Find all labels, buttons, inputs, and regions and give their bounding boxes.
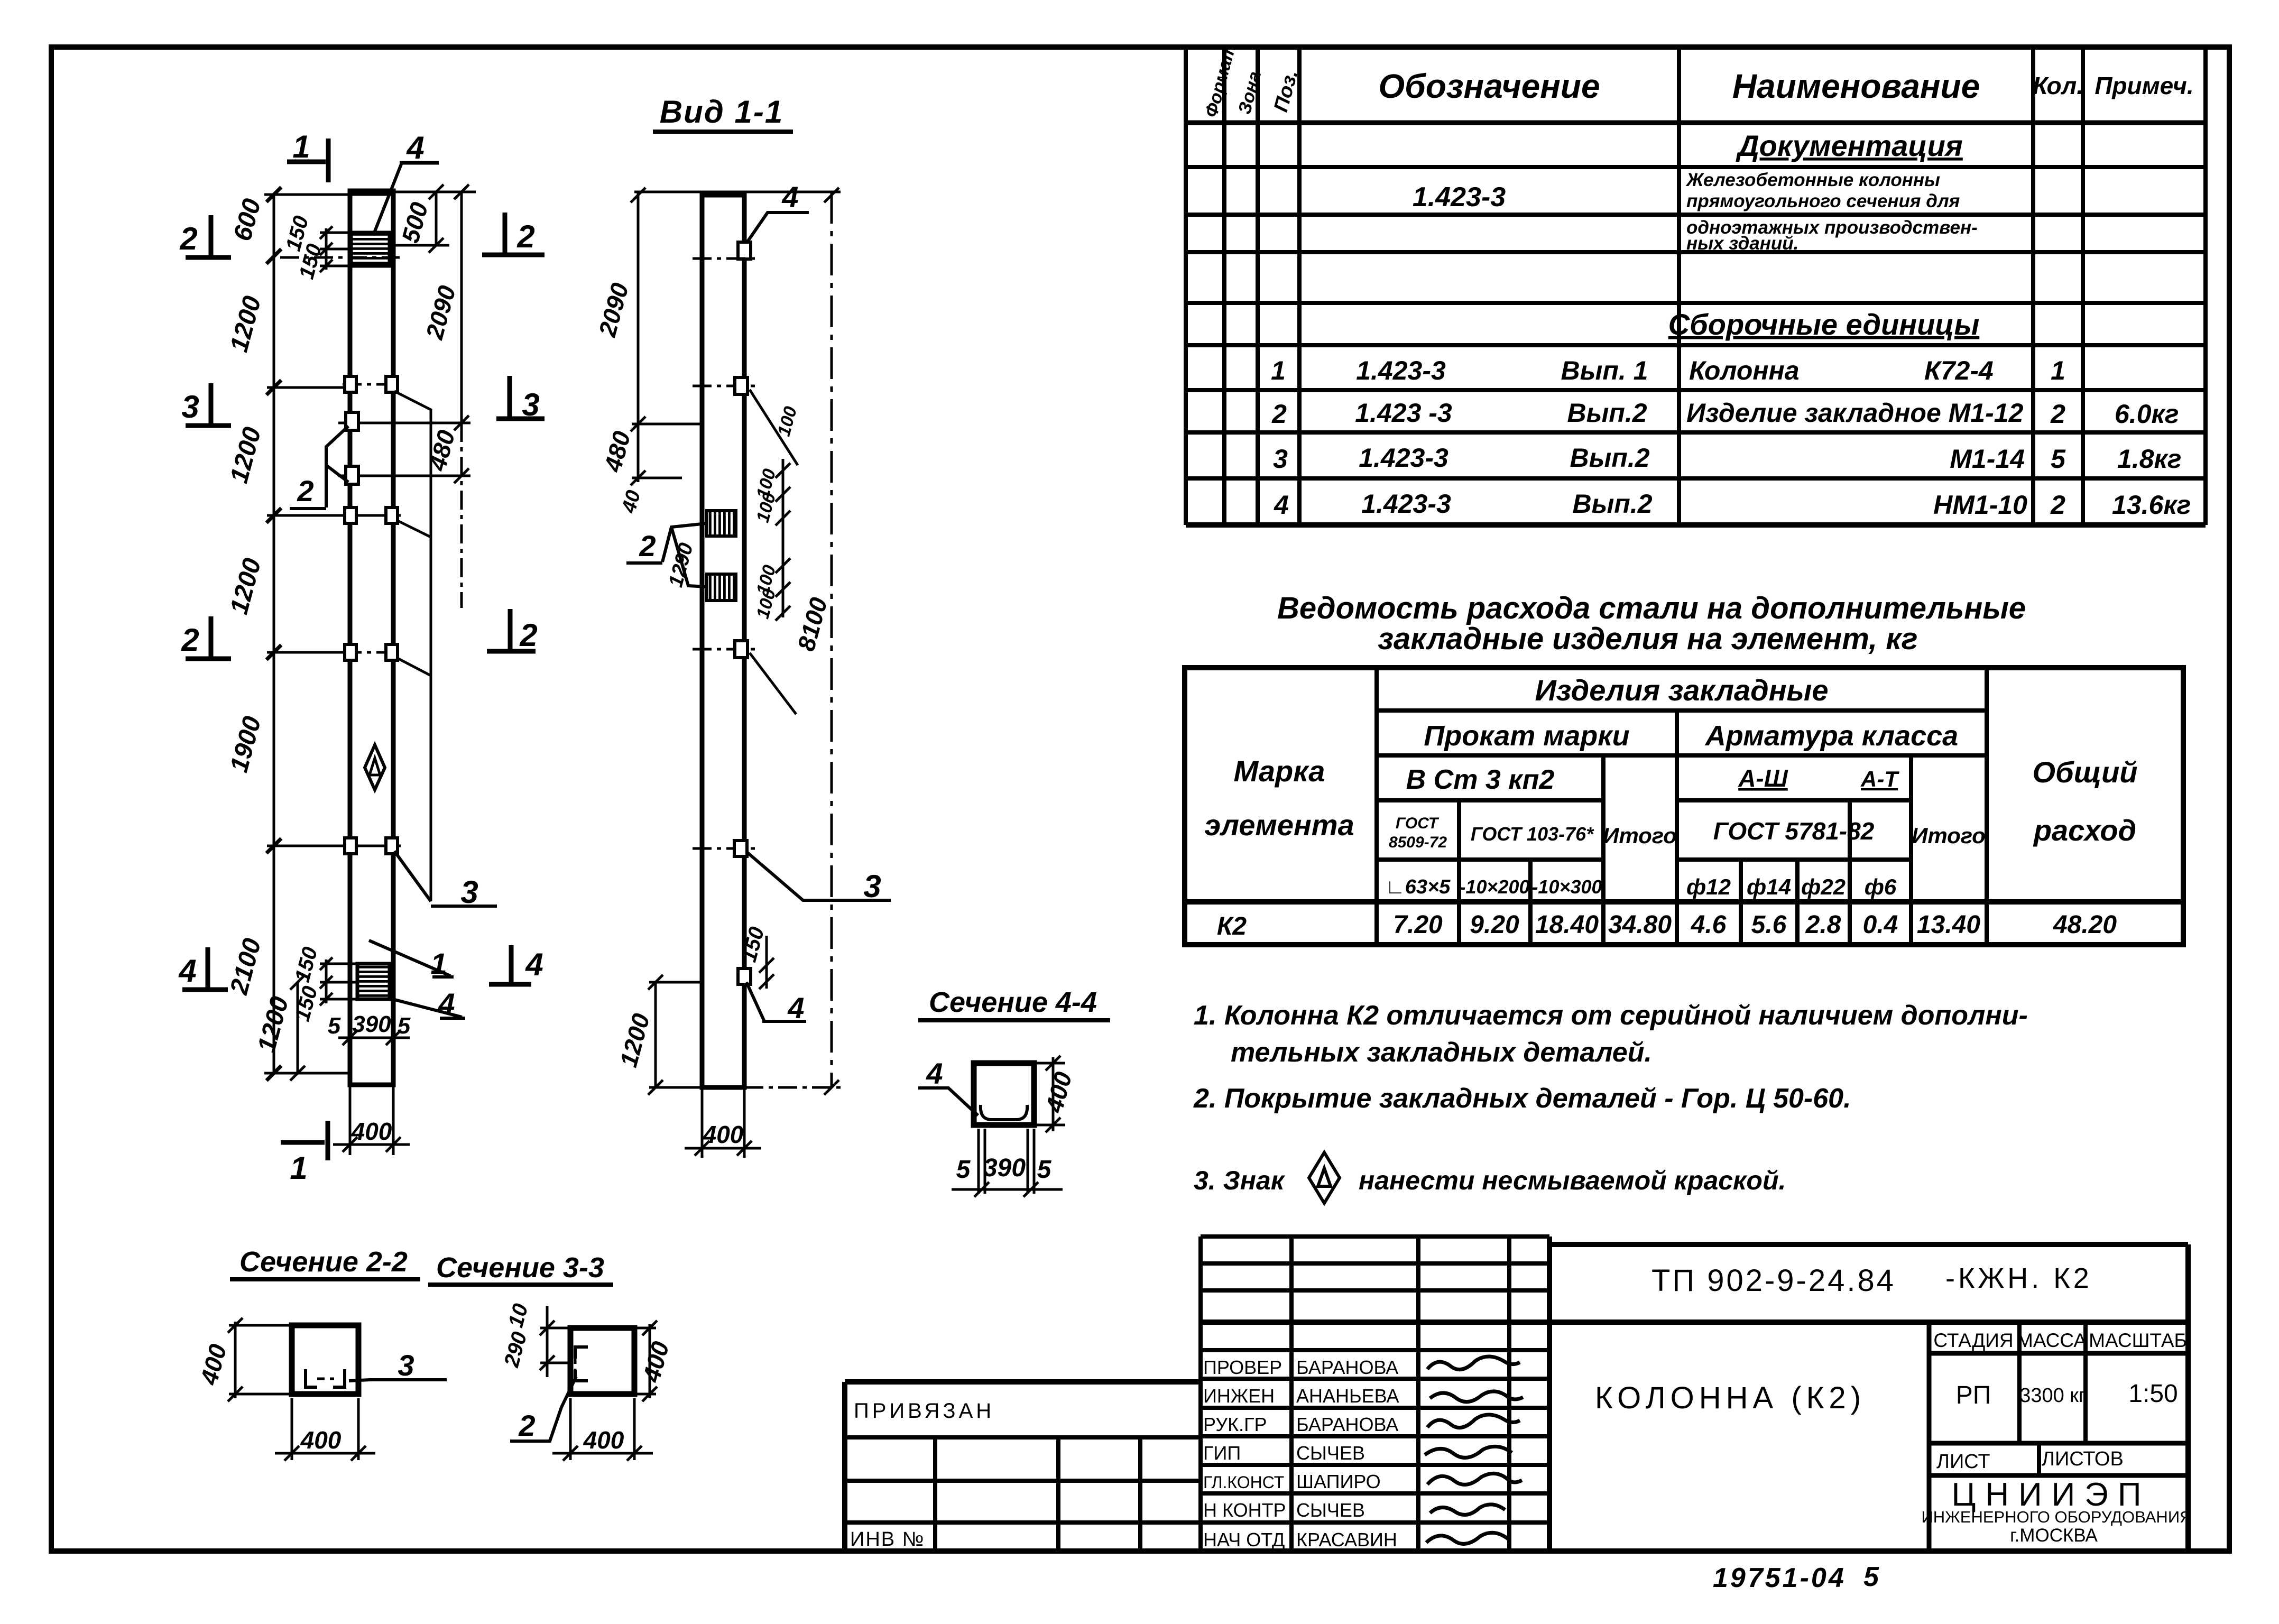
svg-text:Сборочные единицы: Сборочные единицы: [1668, 308, 1980, 341]
left dimension chain line: [264, 193, 395, 1074]
svg-text:1200: 1200: [253, 993, 294, 1055]
bottom embedded plate: [357, 964, 390, 999]
long leader from joint 727: [394, 391, 431, 901]
signature rows labels: [1203, 1357, 1399, 1551]
svg-text:1: 1: [2051, 356, 2065, 385]
title block grid: [845, 1237, 2188, 1551]
chain dimension labels: [225, 196, 294, 1055]
section mark 2 left: [186, 215, 231, 259]
svg-text:нанести несмываемой краской.: нанести несмываемой краской.: [1359, 1166, 1786, 1195]
svg-text:∟63×5: ∟63×5: [1386, 876, 1451, 898]
joint at 730: [693, 385, 756, 387]
svg-text:9.20: 9.20: [1470, 911, 1519, 939]
svg-text:150: 150: [291, 945, 322, 985]
svg-text:5: 5: [1037, 1156, 1052, 1184]
8100 dim right: [824, 188, 839, 1095]
svg-text:М1-14: М1-14: [1950, 444, 2025, 474]
svg-text:1200: 1200: [225, 293, 267, 355]
svg-text:ТП 902-9-24.84: ТП 902-9-24.84: [1651, 1263, 1896, 1298]
top extension line: [634, 191, 841, 193]
svg-text:А-Ш: А-Ш: [1738, 764, 1788, 792]
svg-text:6.0кг: 6.0кг: [2115, 399, 2179, 429]
svg-text:390: 390: [352, 1011, 391, 1037]
svg-text:1: 1: [430, 947, 447, 980]
quality-mark diamond in note 3: [1309, 1152, 1340, 1203]
svg-text:400: 400: [1040, 1069, 1077, 1116]
svg-text:2: 2: [179, 221, 197, 256]
svg-text:Вып. 1: Вып. 1: [1561, 356, 1648, 385]
svg-text:1.8кг: 1.8кг: [2117, 444, 2182, 474]
svg-text:Примеч.: Примеч.: [2095, 72, 2193, 99]
section mark 2 lower left: [186, 616, 231, 660]
leader 2: [626, 523, 707, 587]
embedded plates M1-12 in column: [707, 511, 736, 536]
svg-text:ных зданий.: ных зданий.: [1686, 233, 1798, 254]
right part: [1549, 1242, 2188, 1247]
svg-text:ШАПИРО: ШАПИРО: [1296, 1471, 1381, 1492]
svg-text:Вып.2: Вып.2: [1567, 398, 1647, 428]
svg-text:ПРИВЯЗАН: ПРИВЯЗАН: [854, 1399, 994, 1423]
section 4-4 channel detail: [981, 1105, 1027, 1120]
plate at right edge top: [738, 242, 751, 259]
svg-text:ф22: ф22: [1801, 874, 1846, 899]
svg-text:расход: расход: [2033, 814, 2136, 847]
svg-text:3: 3: [460, 874, 478, 910]
svg-text:А-Т: А-Т: [1860, 767, 1899, 791]
svg-text:100: 100: [774, 404, 801, 439]
svg-text:400: 400: [703, 1121, 744, 1148]
svg-text:400: 400: [195, 1341, 232, 1388]
svg-text:1.423-3: 1.423-3: [1359, 443, 1448, 473]
row: Документация: [1413, 129, 1980, 341]
section cut 2-2 dash line: [280, 256, 400, 259]
svg-text:1.423-3: 1.423-3: [1413, 182, 1506, 213]
svg-text:0.4: 0.4: [1863, 911, 1898, 939]
svg-text:Н КОНТР: Н КОНТР: [1203, 1499, 1286, 1521]
svg-text:НАЧ ОТД: НАЧ ОТД: [1203, 1529, 1285, 1551]
top embedded plate HM1-10: [351, 233, 390, 266]
section 3-3 square: [570, 1328, 634, 1394]
svg-text:3: 3: [398, 1349, 414, 1382]
svg-text:Зона: Зона: [1234, 69, 1265, 116]
svg-text:ЛИСТ: ЛИСТ: [1936, 1451, 1990, 1473]
1200 dim left bottom: [648, 975, 703, 1095]
100 dims right side: [776, 459, 790, 621]
svg-text:2: 2: [516, 219, 534, 254]
svg-text:4: 4: [438, 987, 455, 1020]
svg-text:4: 4: [1274, 490, 1289, 520]
quality diamond mark on column: [365, 745, 385, 790]
svg-text:ф12: ф12: [1686, 874, 1731, 899]
svg-text:2090: 2090: [593, 280, 634, 340]
svg-text:ИНВ №: ИНВ №: [850, 1528, 925, 1551]
svg-text:18.40: 18.40: [1535, 911, 1599, 939]
svg-text:Сечение 2-2: Сечение 2-2: [239, 1246, 408, 1278]
5 390 5 dim below plate: [338, 999, 410, 1045]
section 2-2 400 dim left: [228, 1318, 290, 1401]
svg-text:8509-72: 8509-72: [1389, 834, 1447, 851]
section mark 1 top: [287, 139, 328, 182]
bottom extension dashed right: [744, 1086, 846, 1089]
svg-text:400: 400: [300, 1426, 342, 1454]
section mark 2 right top: [482, 213, 545, 256]
leader 1: [369, 940, 454, 977]
svg-text:ЛИСТОВ: ЛИСТОВ: [2042, 1448, 2124, 1470]
leader 3: [747, 852, 891, 900]
svg-text:290: 290: [500, 1330, 531, 1370]
svg-text:РП: РП: [1956, 1381, 1991, 1409]
svg-text:Вып.2: Вып.2: [1570, 443, 1649, 473]
specification table grid: [1186, 50, 2206, 525]
svg-text:Железобетонные колонны: Железобетонные колонны: [1685, 170, 1940, 190]
svg-text:3: 3: [522, 387, 539, 422]
steel table header texts: [1204, 673, 2137, 899]
plates on left edge M1-14: [346, 412, 358, 430]
svg-text:КОЛОННА (К2): КОЛОННА (К2): [1595, 1381, 1866, 1415]
section 2-2 square: [292, 1325, 358, 1394]
svg-text:1: 1: [290, 1150, 307, 1186]
left attachment block: [845, 1379, 1201, 1385]
svg-text:600: 600: [228, 196, 266, 244]
section 4-4 leader 4: [918, 1088, 978, 1115]
leader 4 top: [373, 163, 402, 235]
svg-text:г.МОСКВА: г.МОСКВА: [2010, 1525, 2098, 1546]
svg-text:ф6: ф6: [1865, 874, 1897, 899]
section 3-3 290 10 dims: [540, 1306, 574, 1377]
svg-text:1: 1: [292, 129, 310, 164]
svg-text:ГОСТ: ГОСТ: [1396, 815, 1440, 832]
joint at 1605: [693, 847, 756, 850]
joint at 1234: [343, 651, 401, 654]
2090 dim right: [454, 184, 469, 608]
svg-text:150: 150: [291, 984, 322, 1024]
svg-text:8100: 8100: [792, 594, 833, 654]
svg-text:4: 4: [525, 947, 543, 982]
svg-text:480: 480: [423, 427, 460, 474]
svg-text:13.6кг: 13.6кг: [2112, 490, 2191, 520]
svg-text:РУК.ГР: РУК.ГР: [1203, 1414, 1267, 1435]
svg-text:3: 3: [1273, 444, 1288, 474]
section mark 3 right: [496, 376, 545, 420]
480 dim right: [338, 423, 470, 483]
svg-text:Обозначение: Обозначение: [1378, 67, 1600, 105]
svg-text:2: 2: [519, 617, 537, 653]
svg-text:Итого: Итого: [1912, 823, 1986, 848]
section 2-2 400 dim bottom: [275, 1398, 375, 1461]
svg-text:19751-04: 19751-04: [1713, 1563, 1846, 1593]
section 3-3 channel detail: [575, 1347, 588, 1381]
svg-text:3300 кг: 3300 кг: [2019, 1385, 2086, 1407]
section 2-2 channel detail: [306, 1369, 345, 1387]
svg-text:Наименование: Наименование: [1732, 67, 1980, 105]
500 dim right: [393, 184, 476, 253]
section mark 4 right: [489, 945, 531, 986]
svg-text:390: 390: [983, 1154, 1026, 1182]
section 3-3 leader 2: [510, 1377, 576, 1441]
svg-text:закладные изделия на элемент,: закладные изделия на элемент, кг: [1378, 622, 1917, 656]
svg-text:7.20: 7.20: [1393, 911, 1443, 939]
section mark 1 bottom: [281, 1121, 328, 1160]
svg-text:ф14: ф14: [1747, 874, 1791, 899]
svg-text:БАРАНОВА: БАРАНОВА: [1296, 1357, 1398, 1378]
svg-text:Сечение 4-4: Сечение 4-4: [929, 986, 1097, 1018]
svg-text:5: 5: [398, 1013, 411, 1039]
section 2-2 leader 3: [349, 1380, 447, 1381]
svg-text:2090: 2090: [420, 282, 461, 343]
svg-text:1200: 1200: [225, 555, 267, 617]
svg-text:2100: 2100: [225, 935, 266, 998]
svg-text:Кол.: Кол.: [2033, 72, 2083, 99]
section 4-4 5 390 5 dim: [952, 1129, 1063, 1197]
svg-text:АНАНЬЕВА: АНАНЬЕВА: [1296, 1385, 1399, 1407]
svg-text:Изделие закладное М1-12: Изделие закладное М1-12: [1686, 398, 2024, 428]
svg-text:Формат: Формат: [1201, 42, 1240, 119]
svg-text:1200: 1200: [225, 424, 267, 486]
leader 4 top: [743, 213, 809, 248]
svg-text:В Ст 3 кп2: В Ст 3 кп2: [1406, 764, 1555, 795]
svg-text:13.40: 13.40: [1917, 911, 1980, 939]
svg-text:4: 4: [926, 1057, 943, 1090]
leader 4 bottom: [746, 982, 806, 1021]
svg-text:ГЛ.КОНСТ: ГЛ.КОНСТ: [1203, 1473, 1284, 1492]
svg-text:-10×200: -10×200: [1459, 876, 1529, 898]
leader 4 bottom: [389, 998, 465, 1018]
svg-text:4: 4: [406, 130, 424, 165]
svg-text:НМ1-10: НМ1-10: [1933, 490, 2027, 520]
svg-text:Прокат марки: Прокат марки: [1424, 720, 1629, 752]
svg-text:3. Знак: 3. Знак: [1194, 1166, 1286, 1195]
section 4-4 square: [974, 1063, 1034, 1125]
stage mass scale: [1933, 1330, 2186, 1351]
svg-text:Документация: Документация: [1736, 129, 1963, 162]
2090 and 480 dims left: [631, 188, 702, 485]
svg-text:400: 400: [637, 1339, 674, 1386]
joint at 1600: [343, 845, 401, 847]
inner 1200 dim line bottom: [290, 975, 305, 1081]
svg-text:1.423-3: 1.423-3: [1361, 489, 1451, 519]
svg-text:элемента: элемента: [1204, 808, 1354, 842]
svg-text:Вып.2: Вып.2: [1572, 489, 1652, 519]
header texts: [1201, 42, 2194, 119]
svg-text:ИНЖЕНЕРНОГО ОБОРУДОВАНИЯ: ИНЖЕНЕРНОГО ОБОРУДОВАНИЯ: [1922, 1508, 2192, 1526]
leader 3 bottom: [394, 851, 497, 906]
150x150 bracket bottom: [320, 957, 357, 1005]
svg-text:2: 2: [639, 529, 656, 562]
svg-text:К2: К2: [1217, 912, 1247, 940]
svg-text:5: 5: [1863, 1562, 1879, 1592]
svg-text:Итого: Итого: [1603, 823, 1677, 848]
chain tick marks: [266, 187, 281, 1081]
joint at 727 with edge plates: [343, 383, 401, 386]
svg-text:5: 5: [2051, 444, 2066, 474]
svg-text:КРАСАВИН: КРАСАВИН: [1296, 1529, 1397, 1551]
150x150 bracket top: [320, 226, 351, 272]
svg-text:2: 2: [518, 1409, 535, 1442]
svg-text:1.423-3: 1.423-3: [1356, 356, 1446, 385]
svg-text:1.423 -3: 1.423 -3: [1355, 398, 1452, 428]
svg-text:БАРАНОВА: БАРАНОВА: [1296, 1414, 1398, 1435]
svg-text:Изделия закладные: Изделия закладные: [1535, 673, 1828, 707]
assembly rows: [1271, 356, 2191, 520]
svg-text:1900: 1900: [225, 713, 267, 775]
svg-text:4.6: 4.6: [1691, 911, 1727, 939]
svg-text:К72-4: К72-4: [1924, 356, 1994, 385]
svg-text:5: 5: [956, 1156, 971, 1184]
svg-text:Колонна: Колонна: [1689, 356, 1800, 385]
svg-text:400: 400: [351, 1118, 392, 1145]
svg-text:48.20: 48.20: [2053, 911, 2117, 939]
section 3-3 400 dim right: [636, 1321, 657, 1401]
svg-text:Ведомость расхода стали на доп: Ведомость расхода стали на дополнительны…: [1277, 591, 2026, 625]
section mark 2 right lower: [487, 609, 536, 653]
400 dim below: [685, 1087, 761, 1158]
svg-text:3: 3: [181, 389, 199, 425]
svg-text:2. Покрытие закладных деталей: 2. Покрытие закладных деталей - Гор. Ц 5…: [1193, 1083, 1851, 1114]
section 4-4 400 dim right: [1034, 1056, 1065, 1132]
svg-text:ПРОВЕР: ПРОВЕР: [1203, 1357, 1282, 1378]
steel table data row: [1217, 911, 2117, 940]
svg-text:400: 400: [583, 1426, 624, 1454]
column K2 body (front view): [350, 191, 393, 1085]
svg-text:Вид 1-1: Вид 1-1: [660, 94, 783, 130]
svg-text:4: 4: [178, 953, 196, 989]
column K2 body (side view 1-1): [702, 195, 744, 1087]
svg-text:2: 2: [1271, 399, 1287, 429]
svg-text:1:50: 1:50: [2128, 1380, 2177, 1408]
svg-text:ГИП: ГИП: [1203, 1442, 1241, 1464]
section mark 4 left: [182, 947, 228, 991]
svg-text:2: 2: [2050, 490, 2065, 520]
svg-text:1: 1: [1271, 356, 1286, 385]
svg-text:ИНЖЕН: ИНЖЕН: [1203, 1385, 1275, 1407]
svg-text:5: 5: [328, 1013, 341, 1039]
joint at 975: [343, 514, 401, 517]
plate at right edge bottom + 150 dim: [738, 968, 751, 984]
svg-text:Общий: Общий: [2032, 755, 2137, 789]
svg-text:Сечение 3-3: Сечение 3-3: [436, 1252, 604, 1284]
steel consumption table title: [1277, 591, 2026, 656]
400 dim below column: [333, 1085, 410, 1155]
svg-text:Марка: Марка: [1234, 754, 1325, 788]
svg-text:ГОСТ 103-76*: ГОСТ 103-76*: [1471, 823, 1594, 845]
svg-text:4: 4: [781, 180, 798, 214]
svg-text:тельных закладных деталей.: тельных закладных деталей.: [1231, 1037, 1652, 1068]
svg-text:2: 2: [181, 622, 199, 658]
svg-text:МАСШТАБ: МАСШТАБ: [2089, 1330, 2187, 1351]
leader 2 to left plates: [290, 426, 348, 509]
svg-text:МАССА: МАССА: [2017, 1330, 2087, 1351]
svg-text:2: 2: [2050, 399, 2065, 429]
svg-text:СТАДИЯ: СТАДИЯ: [1933, 1330, 2013, 1351]
svg-text:-10×300: -10×300: [1531, 876, 1602, 898]
svg-text:Арматура класса: Арматура класса: [1704, 720, 1958, 752]
joint at 1228: [693, 648, 756, 651]
svg-text:34.80: 34.80: [1608, 911, 1672, 939]
svg-text:10: 10: [504, 1301, 532, 1330]
section mark 3 left: [186, 383, 231, 427]
svg-text:1200: 1200: [614, 1010, 655, 1070]
svg-text:1. Колонна К2 отличается от се: 1. Колонна К2 отличается от серийной нал…: [1194, 1000, 2028, 1031]
svg-text:ГОСТ 5781-82: ГОСТ 5781-82: [1713, 817, 1875, 845]
svg-text:500: 500: [396, 199, 433, 246]
svg-text:3: 3: [863, 869, 881, 904]
svg-text:40: 40: [617, 488, 645, 516]
svg-text:2: 2: [297, 474, 313, 508]
svg-text:2.8: 2.8: [1805, 911, 1841, 939]
svg-text:СЫЧЕВ: СЫЧЕВ: [1296, 1442, 1365, 1464]
svg-text:4: 4: [787, 991, 804, 1025]
handwritten signatures: [1425, 1357, 1523, 1544]
steel table grid: [1185, 668, 2183, 945]
svg-text:прямоугольного сечения для: прямоугольного сечения для: [1686, 191, 1960, 211]
svg-text:480: 480: [598, 428, 635, 475]
section 3-3 400 dim bottom: [552, 1398, 653, 1461]
svg-text:СЫЧЕВ: СЫЧЕВ: [1296, 1499, 1365, 1521]
svg-text:5.6: 5.6: [1751, 911, 1787, 939]
svg-text:-КЖН. К2: -КЖН. К2: [1945, 1262, 2092, 1294]
